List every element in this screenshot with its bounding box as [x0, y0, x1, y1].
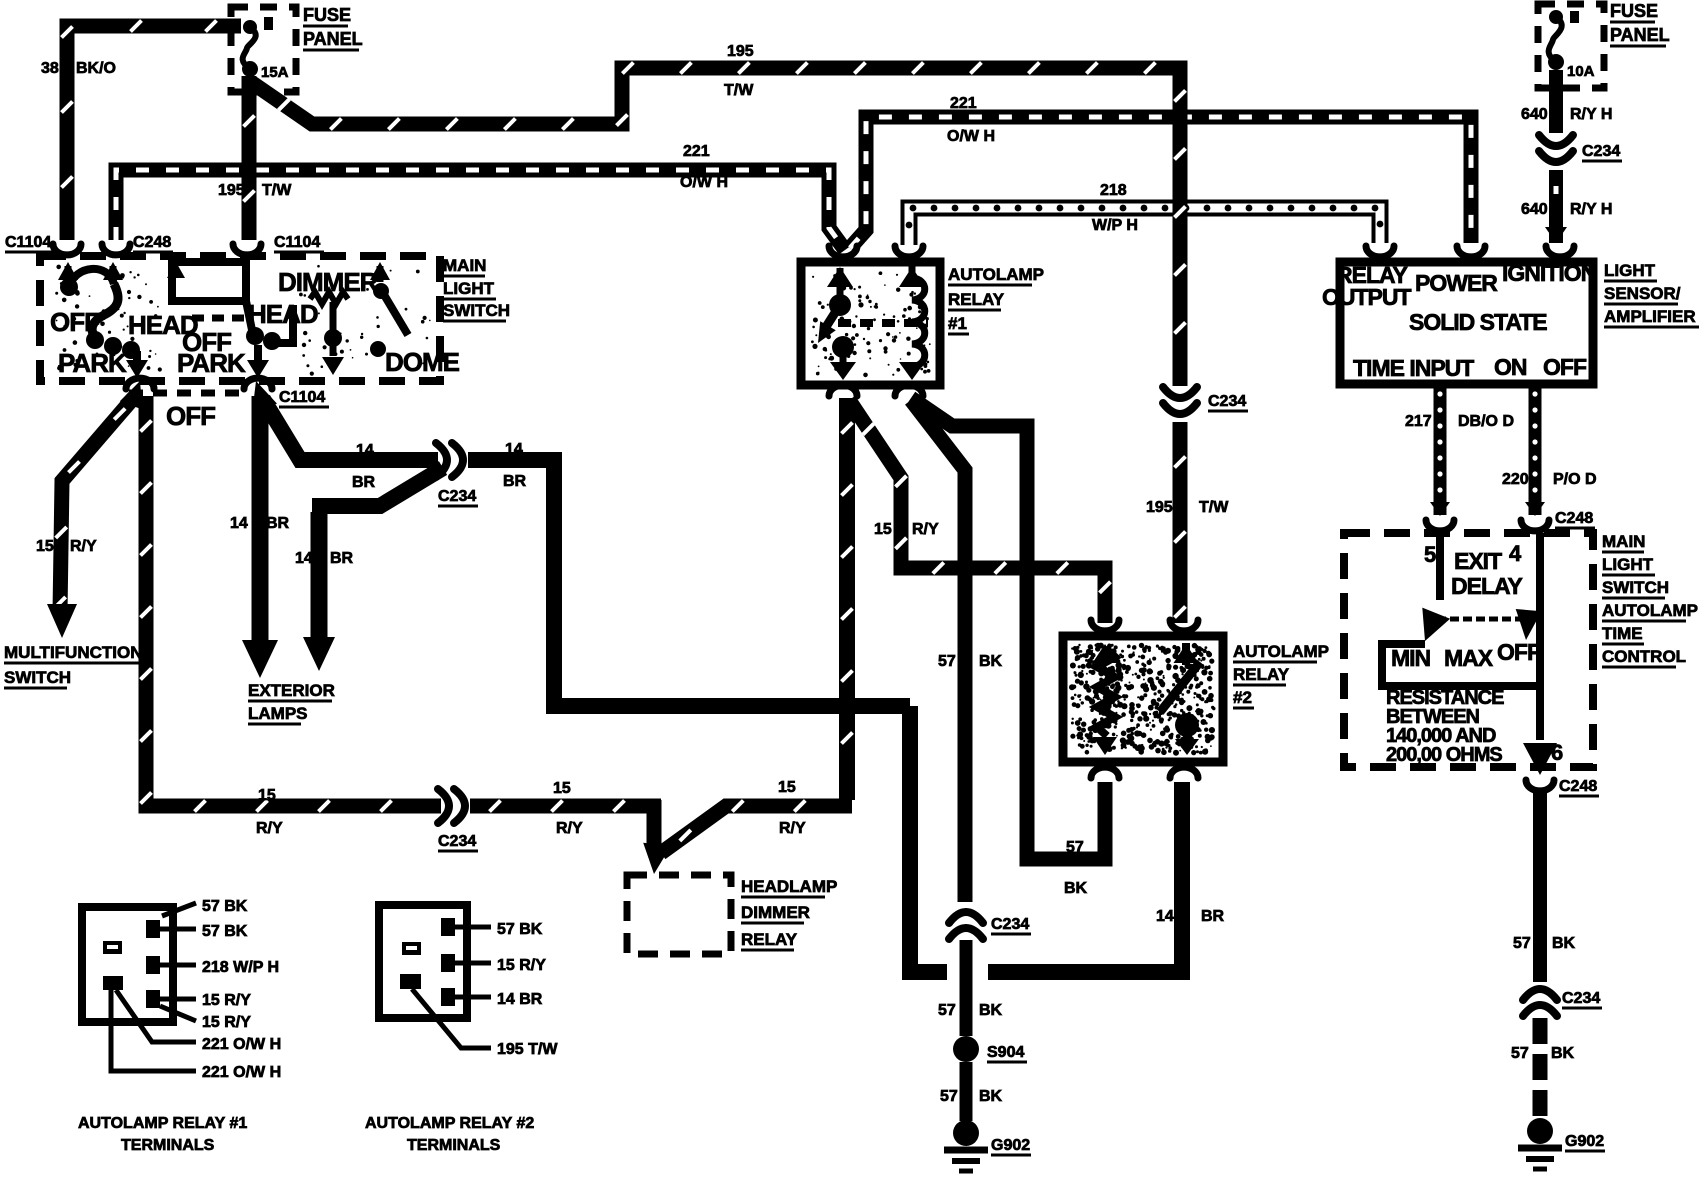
svg-text:HEADLAMP: HEADLAMP: [741, 877, 837, 896]
relay 2 coil: [1093, 644, 1118, 663]
svg-text:BK: BK: [979, 1002, 1003, 1019]
svg-text:OFF: OFF: [166, 401, 215, 431]
connector C248: [102, 244, 130, 255]
svg-text:218 W/P H: 218 W/P H: [202, 959, 279, 976]
svg-text:O/W H: O/W H: [680, 174, 728, 191]
arrow to C248 below: [1523, 743, 1557, 775]
autolamp relay 2 terminals box: [379, 905, 467, 1018]
relay 1 switch pivot dot: [829, 294, 851, 316]
wire 221 O/W H right run: relay 1 to amplifier POWER: [850, 117, 1471, 248]
svg-text:FUSE: FUSE: [303, 5, 351, 25]
mechanical link dashed (HEAD): [192, 315, 252, 322]
wire 15 R/Y to multifunction switch: [60, 395, 136, 612]
svg-text:PANEL: PANEL: [303, 29, 363, 49]
svg-text:14: 14: [230, 515, 248, 532]
svg-text:PARK: PARK: [177, 348, 246, 378]
svg-text:C234: C234: [1562, 990, 1600, 1007]
relay 1 terminal arcs: [829, 246, 857, 257]
svg-text:15: 15: [778, 779, 796, 796]
svg-text:DOME: DOME: [385, 347, 460, 377]
svg-text:SWITCH: SWITCH: [443, 301, 510, 320]
relay 2 terminal arcs: [1091, 620, 1119, 631]
svg-text:14: 14: [505, 441, 523, 458]
svg-text:SWITCH: SWITCH: [4, 668, 71, 687]
wire 15 R/Y from relay1 to bottom rail: [839, 398, 855, 800]
svg-text:15A: 15A: [261, 64, 289, 81]
svg-text:G902: G902: [991, 1137, 1030, 1154]
svg-text:217: 217: [1405, 413, 1432, 430]
svg-text:G902: G902: [1565, 1133, 1604, 1150]
wire 14 BR to exterior lamp 2: [311, 512, 328, 640]
leader 57 BK: [455, 925, 491, 930]
svg-text:OFF: OFF: [1543, 354, 1587, 380]
svg-text:5: 5: [1424, 542, 1436, 567]
wire 57 BK to G902: [960, 1062, 973, 1121]
autolamp relay 2 box: [1063, 636, 1223, 762]
wire 14 BR to exterior lamp 1: [252, 396, 269, 640]
svg-text:TERMINALS: TERMINALS: [121, 1137, 215, 1154]
svg-text:HEAD: HEAD: [248, 299, 318, 329]
autolamp relay 1 box: [801, 262, 940, 385]
svg-text:BK/O: BK/O: [76, 60, 116, 77]
svg-text:640: 640: [1521, 201, 1548, 218]
arrowhead into C1104 (PARK output): [120, 381, 143, 410]
svg-text:CONTROL: CONTROL: [1602, 647, 1686, 666]
svg-text:C234: C234: [438, 488, 476, 505]
svg-text:C248: C248: [133, 234, 171, 251]
svg-text:C234: C234: [991, 916, 1029, 933]
svg-text:OFF: OFF: [50, 307, 99, 337]
svg-text:BK: BK: [1064, 880, 1088, 897]
15 R/Y diagonal riser: [661, 806, 852, 853]
dashed 57 BK to ground: [1533, 1018, 1548, 1118]
svg-text:#1: #1: [948, 314, 967, 333]
wire 14 BR from switch to C234: [263, 399, 438, 460]
dome switch terminal: [377, 266, 384, 282]
svg-text:BK: BK: [979, 1088, 1003, 1105]
svg-text:15: 15: [258, 787, 276, 804]
svg-text:AUTOLAMP: AUTOLAMP: [1233, 642, 1329, 661]
svg-text:R/Y: R/Y: [779, 820, 806, 837]
svg-text:57: 57: [938, 653, 956, 670]
svg-text:57: 57: [940, 1088, 958, 1105]
switch noise speckle: [100, 322, 105, 327]
svg-text:POWER: POWER: [1415, 270, 1498, 296]
svg-text:DIMMER: DIMMER: [741, 903, 810, 922]
svg-text:LIGHT: LIGHT: [1604, 261, 1656, 280]
svg-text:C1104: C1104: [274, 234, 320, 251]
svg-text:C1104: C1104: [5, 234, 51, 251]
svg-text:R/Y: R/Y: [556, 820, 583, 837]
svg-text:PANEL: PANEL: [1610, 25, 1670, 45]
headlamp dimmer relay box: [627, 875, 731, 954]
svg-text:38: 38: [41, 60, 59, 77]
svg-text:BR: BR: [266, 515, 290, 532]
switch 2 output arrow: [254, 345, 262, 360]
switch 2 L link: [272, 305, 293, 343]
connector C248 arcs: [1426, 520, 1454, 531]
svg-text:R/Y H: R/Y H: [1570, 106, 1612, 123]
connector C1104 (left, under 38 BK/O): [53, 244, 81, 255]
light sensor amplifier box: [1340, 262, 1593, 384]
svg-text:R/Y H: R/Y H: [1570, 201, 1612, 218]
svg-text:DELAY: DELAY: [1451, 573, 1522, 599]
leader 195 T/W: [412, 989, 491, 1048]
switch 1 output arrow to PARK: [133, 351, 141, 362]
wire 15 R/Y from relay1 to relay2 coil: [849, 400, 1105, 623]
leader 218 W/P H: [160, 963, 196, 968]
switch 1 contact dot: [60, 278, 78, 296]
svg-text:AUTOLAMP RELAY #1: AUTOLAMP RELAY #1: [78, 1115, 247, 1132]
pin 5 wiper arrow: [1422, 608, 1450, 641]
svg-text:TERMINALS: TERMINALS: [407, 1137, 501, 1154]
svg-text:C234: C234: [1208, 393, 1246, 410]
svg-text:57 BK: 57 BK: [202, 923, 248, 940]
wire 15 R/Y main run to bottom rail: [146, 396, 441, 806]
svg-text:221: 221: [683, 143, 710, 160]
svg-text:C234: C234: [1582, 143, 1620, 160]
svg-text:14 BR: 14 BR: [497, 991, 543, 1008]
wire 218 W/P H: relay 1 to amplifier RELAY OUTPUT: [909, 208, 1380, 245]
wire 220 P/O D: [1529, 384, 1542, 515]
svg-text:221 O/W H: 221 O/W H: [202, 1036, 281, 1053]
svg-text:15: 15: [874, 521, 892, 538]
relay 1 coil: [899, 267, 925, 287]
connector C234 on 15 R/Y rail: [438, 789, 449, 823]
svg-text:15 R/Y: 15 R/Y: [202, 992, 251, 1009]
svg-text:LAMPS: LAMPS: [248, 704, 308, 723]
svg-text:FUSE: FUSE: [1610, 1, 1658, 21]
svg-text:LIGHT: LIGHT: [443, 279, 495, 298]
svg-text:BR: BR: [330, 550, 354, 567]
svg-text:MULTIFUNCTION: MULTIFUNCTION: [4, 643, 143, 662]
svg-text:TIME INPUT: TIME INPUT: [1353, 355, 1474, 381]
15 R/Y drop to headlamp dimmer relay: [647, 800, 662, 852]
switch 1 contact dots row: [86, 331, 104, 349]
terminal pin 2: [110, 266, 117, 284]
connector C234 on 14 BR: [436, 443, 447, 477]
fuse panel (left): [231, 7, 296, 92]
svg-text:15: 15: [36, 538, 54, 555]
svg-text:P/O D: P/O D: [1553, 471, 1597, 488]
svg-text:AUTOLAMP: AUTOLAMP: [1602, 601, 1698, 620]
svg-text:LIGHT: LIGHT: [1602, 555, 1654, 574]
wire 57 BK to S904: [960, 940, 973, 1036]
C1104 connector arcs below switch: [126, 378, 154, 389]
svg-text:C248: C248: [1559, 778, 1597, 795]
switch 2 contacts: [246, 301, 252, 330]
leader 57 BK 2: [160, 927, 196, 932]
svg-text:15 R/Y: 15 R/Y: [202, 1014, 251, 1031]
svg-text:57: 57: [1066, 839, 1084, 856]
svg-text:BK: BK: [979, 653, 1003, 670]
svg-text:SWITCH: SWITCH: [1602, 578, 1669, 597]
svg-text:TIME: TIME: [1602, 624, 1643, 643]
svg-text:DB/O D: DB/O D: [1458, 413, 1514, 430]
svg-text:EXTERIOR: EXTERIOR: [248, 681, 335, 700]
svg-text:57: 57: [938, 1002, 956, 1019]
svg-text:57 BK: 57 BK: [202, 898, 248, 915]
wire 14 BR long run to relay 2: [468, 460, 910, 706]
dimmer rheostat zigzag: [310, 292, 348, 304]
connector C234 on 640: [1539, 135, 1573, 146]
wire 195 T/W upper run from fuse panel to autolamp relay 2: [251, 68, 1180, 386]
14 BR link from lamp2: [312, 468, 443, 506]
svg-text:195: 195: [1146, 499, 1173, 516]
svg-text:221: 221: [950, 95, 977, 112]
svg-text:C1104: C1104: [279, 389, 325, 406]
relay 1 stipple: [883, 346, 887, 350]
svg-text:BR: BR: [1201, 908, 1225, 925]
svg-text:BR: BR: [503, 473, 527, 490]
svg-text:T/W: T/W: [724, 82, 754, 99]
svg-text:PARK: PARK: [58, 348, 127, 378]
svg-text:S904: S904: [987, 1044, 1024, 1061]
wire 57 BK from relay1 switch: branch to relay2: [911, 398, 1105, 859]
wire 217 DB/O D: [1434, 384, 1447, 515]
relay 2 stipple: [1116, 659, 1121, 664]
main light switch autolamp time control box: [1344, 533, 1593, 767]
svg-text:57 BK: 57 BK: [497, 921, 543, 938]
svg-text:EXIT: EXIT: [1454, 548, 1502, 574]
wire 221 O/W H left run: C248 to autolamp relay 1: [116, 170, 845, 250]
svg-text:195: 195: [727, 43, 754, 60]
leader 57 BK: [162, 903, 196, 916]
min-max resistor box: [1382, 644, 1540, 686]
svg-text:SENSOR/: SENSOR/: [1604, 284, 1681, 303]
svg-text:14: 14: [356, 442, 374, 459]
wire 640 R/Y H upper: [1549, 70, 1563, 133]
svg-text:SOLID STATE: SOLID STATE: [1409, 309, 1547, 335]
wire 57 BK right chain: [1533, 793, 1547, 982]
svg-text:OFF: OFF: [1497, 639, 1541, 665]
OFF mechanical dashed link below box: [129, 390, 246, 397]
wire 57 BK from relay1 down to C234/S904: [911, 400, 965, 902]
svg-text:T/W: T/W: [262, 182, 292, 199]
connector C234 on 57 BK: [949, 912, 983, 923]
relay 1 coil terminal arrow (top left): [827, 267, 853, 287]
relay 1 switch arm: [824, 308, 838, 330]
svg-text:57: 57: [1511, 1045, 1529, 1062]
splice S904: [953, 1036, 979, 1062]
svg-text:BK: BK: [1552, 935, 1576, 952]
svg-text:AUTOLAMP: AUTOLAMP: [948, 265, 1044, 284]
wire 640 R/Y H lower: [1549, 170, 1563, 243]
svg-text:#2: #2: [1233, 688, 1252, 707]
svg-text:RELAY: RELAY: [948, 290, 1005, 309]
relay 1 dashed link: [838, 319, 928, 327]
svg-text:195 T/W: 195 T/W: [497, 1041, 558, 1058]
svg-text:221 O/W H: 221 O/W H: [202, 1064, 281, 1081]
svg-text:W/P H: W/P H: [1092, 217, 1138, 234]
switch 1 arc: [69, 269, 114, 287]
svg-text:R/Y: R/Y: [256, 820, 283, 837]
relay 2 switch: [1174, 644, 1199, 663]
svg-text:ON: ON: [1494, 354, 1527, 380]
autolamp relay 1 terminals box: [82, 907, 173, 1022]
dome switch arm: [383, 293, 408, 335]
switch 2 terminal arrow: [167, 262, 185, 278]
svg-text:15: 15: [553, 780, 571, 797]
svg-text:R/Y: R/Y: [912, 521, 939, 538]
svg-text:C234: C234: [438, 833, 476, 850]
svg-text:RELAY: RELAY: [1233, 665, 1290, 684]
switch 2 body rectangle: [172, 262, 246, 301]
ground G902 (right): [1527, 1118, 1553, 1144]
arrowhead into C1104 (HEAD output): [252, 381, 277, 412]
leader 15 R/Y: [455, 961, 491, 966]
pins: [146, 920, 160, 938]
exit delay inner box: [1436, 537, 1444, 600]
svg-text:10A: 10A: [1567, 63, 1595, 80]
leader 15 R/Y 2: [160, 1006, 196, 1021]
pin 4 wiper arrow: [1516, 609, 1542, 640]
svg-text:BK: BK: [1551, 1045, 1575, 1062]
svg-text:AUTOLAMP RELAY #2: AUTOLAMP RELAY #2: [365, 1115, 534, 1132]
svg-text:T/W: T/W: [1199, 499, 1229, 516]
relay 1 lower contact dot: [832, 336, 854, 358]
svg-text:57: 57: [1513, 935, 1531, 952]
wire 195 T/W vertical from fuse to main light switch: [242, 76, 257, 240]
svg-text:O/W H: O/W H: [947, 128, 995, 145]
svg-text:MAX: MAX: [1444, 645, 1494, 671]
pin 6 wire: [1536, 660, 1544, 740]
svg-text:14: 14: [295, 550, 313, 567]
svg-text:AMPLIFIER: AMPLIFIER: [1604, 307, 1696, 326]
connector C234 on 195 T/W: [1163, 387, 1197, 398]
wire 38 BK/O: [67, 26, 241, 240]
switch 1 terminal pin: [65, 266, 72, 280]
dimmer output: [330, 302, 337, 330]
svg-text:R/Y: R/Y: [70, 538, 97, 555]
ground G902 (middle): [953, 1120, 979, 1146]
leader 221 O/W H 2: [111, 990, 196, 1071]
main light switch (dashed box): [40, 256, 440, 381]
svg-text:RELAY: RELAY: [741, 930, 798, 949]
svg-text:IGNITION: IGNITION: [1502, 260, 1597, 286]
svg-text:640: 640: [1521, 106, 1548, 123]
svg-text:MAIN: MAIN: [1602, 532, 1645, 551]
leader 14 BR: [455, 995, 491, 1000]
amplifier terminal arcs: [1366, 246, 1394, 257]
svg-text:218: 218: [1100, 182, 1127, 199]
svg-text:OUTPUT: OUTPUT: [1322, 284, 1412, 310]
svg-text:BR: BR: [352, 474, 376, 491]
svg-text:14: 14: [1156, 908, 1174, 925]
switch 1 S-curve wiper: [92, 284, 118, 339]
svg-text:C248: C248: [1555, 510, 1593, 527]
svg-text:220: 220: [1502, 471, 1529, 488]
connector C234 right chain: [1523, 989, 1557, 1000]
svg-text:MIN: MIN: [1391, 645, 1431, 671]
svg-text:15 R/Y: 15 R/Y: [497, 957, 546, 974]
connector C1104 (under 195 T/W): [233, 244, 261, 255]
leader 15 R/Y: [160, 997, 196, 1002]
svg-text:4: 4: [1509, 541, 1522, 566]
svg-text:200,00 OHMS: 200,00 OHMS: [1386, 744, 1502, 766]
leader 221 O/W H: [116, 990, 196, 1042]
svg-text:195: 195: [218, 182, 245, 199]
svg-text:MAIN: MAIN: [443, 256, 486, 275]
fuse panel (right): [1538, 4, 1604, 88]
